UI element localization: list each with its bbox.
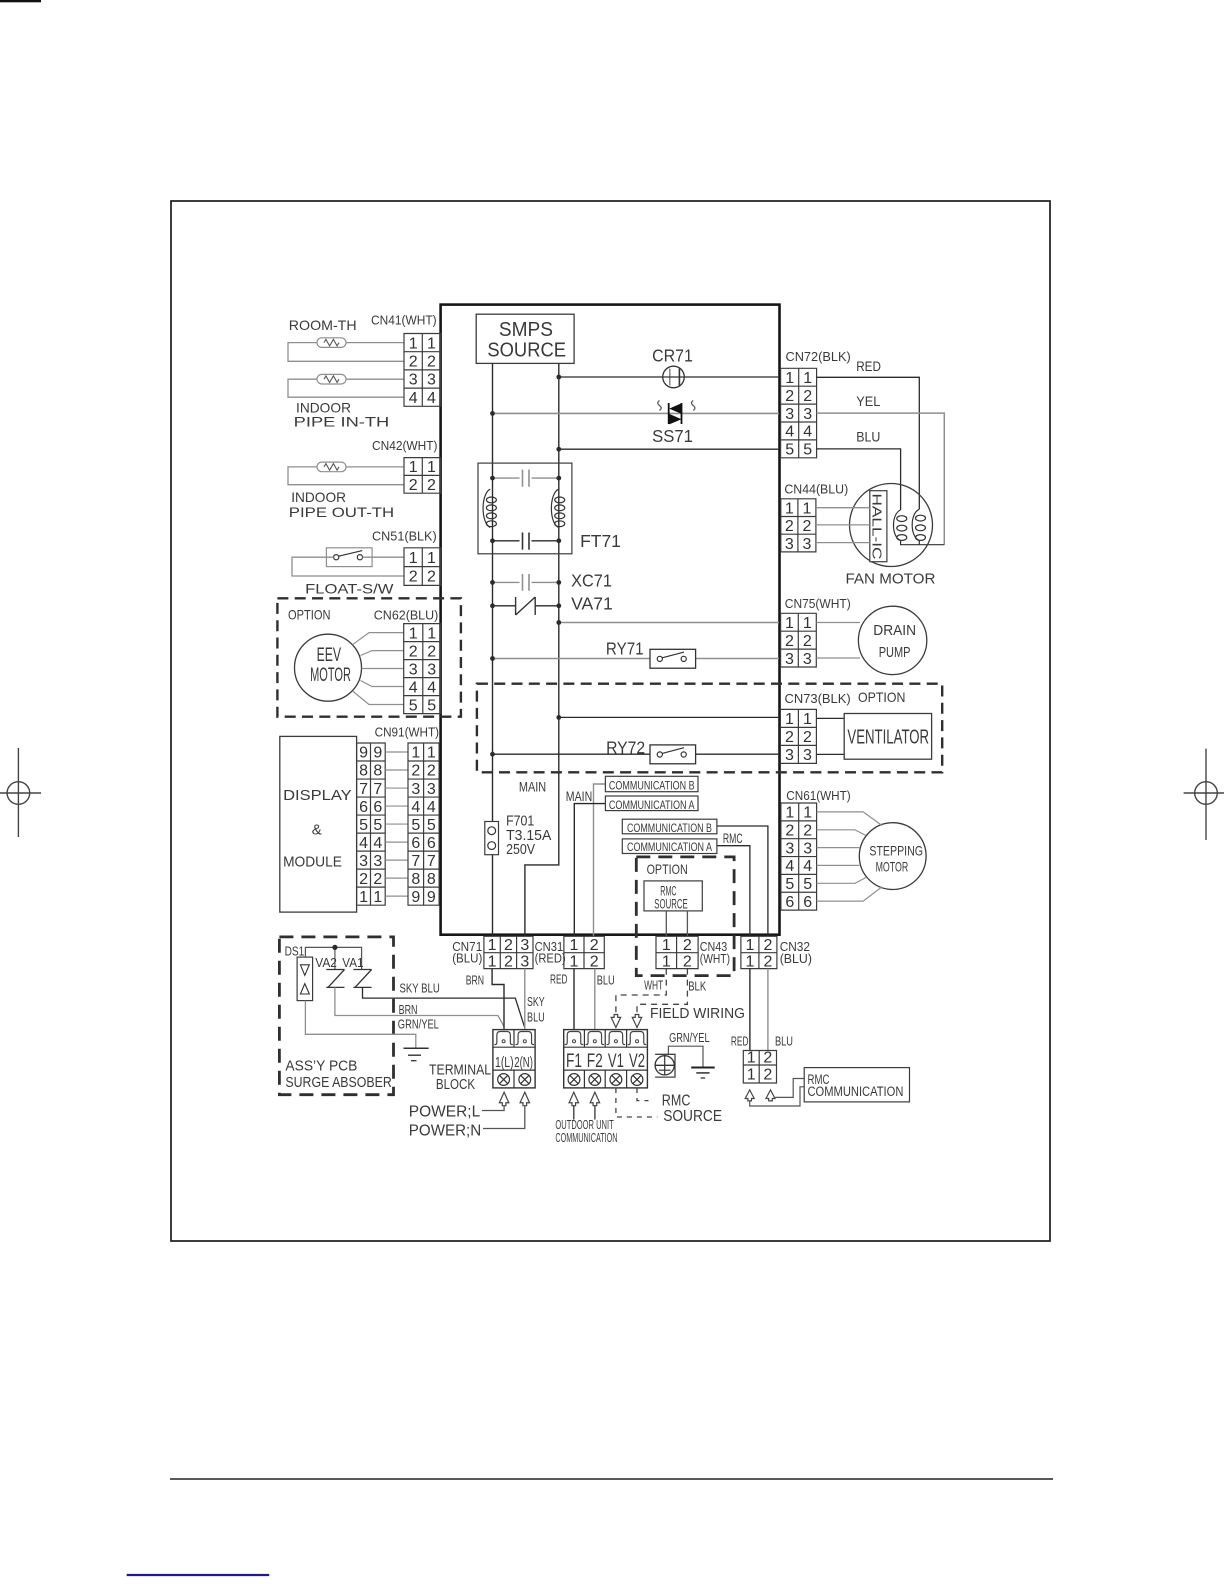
svg-text:DS1: DS1 xyxy=(285,944,305,958)
svg-text:3: 3 xyxy=(520,953,529,970)
svg-text:5: 5 xyxy=(427,697,436,714)
svg-text:PIPE OUT-TH: PIPE OUT-TH xyxy=(289,504,394,520)
svg-text:2: 2 xyxy=(683,937,692,954)
svg-text:5: 5 xyxy=(427,817,436,834)
svg-text:4: 4 xyxy=(359,835,368,852)
svg-text:3: 3 xyxy=(785,651,794,668)
svg-text:V1: V1 xyxy=(608,1051,624,1072)
hall sensor HALL-IC xyxy=(869,491,887,562)
label INDOOR PIPE IN-TH xyxy=(294,400,390,430)
svg-text:VENTILATOR: VENTILATOR xyxy=(847,727,929,749)
wire POWER L xyxy=(482,1106,504,1111)
svg-text:3: 3 xyxy=(803,840,812,857)
ground earth xyxy=(691,1068,715,1079)
arrow V2 xyxy=(632,1015,642,1028)
wire WHT dashed to V1 xyxy=(616,969,666,1015)
label CN71 xyxy=(452,939,482,966)
svg-text:9: 9 xyxy=(359,745,368,762)
svg-text:2: 2 xyxy=(409,354,418,371)
svg-text:2: 2 xyxy=(803,822,812,839)
wire RMC dashed from V2 xyxy=(637,1088,649,1101)
clamp F2 xyxy=(586,1032,605,1045)
svg-text:1: 1 xyxy=(803,615,812,632)
svg-text:2: 2 xyxy=(427,477,436,494)
svg-text:1: 1 xyxy=(745,937,754,954)
svg-text:2: 2 xyxy=(683,953,692,970)
svg-text:8: 8 xyxy=(411,871,420,888)
svg-text:CN44(BLU): CN44(BLU) xyxy=(784,481,848,496)
wire EEV pin2 xyxy=(361,651,404,656)
svg-text:RED: RED xyxy=(550,972,567,987)
ground surge xyxy=(404,1048,429,1060)
svg-text:RED: RED xyxy=(856,358,881,374)
svg-text:4: 4 xyxy=(409,679,418,696)
thermistor ROOM-TH xyxy=(317,338,346,348)
svg-text:1: 1 xyxy=(785,370,794,387)
varistor VA1 xyxy=(353,970,371,988)
capacitor XC71 xyxy=(490,570,612,590)
line filter FT71 xyxy=(478,463,621,554)
clamp terminal 1 xyxy=(494,1032,512,1045)
registration mark right xyxy=(1184,749,1224,840)
arrow power L xyxy=(499,1092,509,1106)
terminal block L-N xyxy=(493,1030,535,1088)
svg-text:VA71: VA71 xyxy=(571,593,613,613)
connector CN51 xyxy=(372,529,441,586)
terminal block F1F2V1V2 xyxy=(564,1030,648,1088)
svg-text:CN91(WHT): CN91(WHT) xyxy=(375,724,440,739)
svg-text:COMMUNICATION A: COMMUNICATION A xyxy=(627,840,712,854)
arrow rmc 2 xyxy=(766,1090,775,1101)
arrow F2 xyxy=(590,1092,600,1106)
svg-text:9: 9 xyxy=(427,889,436,906)
relay RY72 xyxy=(606,737,696,763)
svg-text:SKY BLU: SKY BLU xyxy=(400,981,440,996)
svg-text:6: 6 xyxy=(373,799,382,816)
svg-text:1: 1 xyxy=(662,953,671,970)
wire EEV pin4 xyxy=(361,681,404,687)
option dashed box surge absorber xyxy=(279,937,393,1095)
svg-text:SOURCE: SOURCE xyxy=(663,1108,722,1125)
svg-text:3: 3 xyxy=(785,536,794,553)
label CN43 xyxy=(700,939,730,966)
svg-text:4: 4 xyxy=(427,679,436,696)
label CN32 xyxy=(780,939,812,966)
connector CN71 xyxy=(484,936,533,970)
svg-text:CR71: CR71 xyxy=(652,346,693,366)
svg-text:2: 2 xyxy=(411,763,420,780)
svg-text:1: 1 xyxy=(747,1067,756,1084)
svg-text:STEPPING: STEPPING xyxy=(869,842,923,858)
svg-text:1: 1 xyxy=(373,889,382,906)
wire GRN-YEL xyxy=(305,1001,415,1049)
svg-text:5: 5 xyxy=(411,817,420,834)
svg-text:3: 3 xyxy=(803,406,812,423)
svg-text:SOURCE: SOURCE xyxy=(487,340,566,362)
svg-text:2: 2 xyxy=(785,822,794,839)
thermistor INDOOR PIPE IN-TH xyxy=(317,374,346,384)
svg-text:1: 1 xyxy=(785,711,794,728)
svg-text:BLU: BLU xyxy=(856,429,880,445)
svg-text:CN73(BLK): CN73(BLK) xyxy=(785,691,851,706)
svg-text:1: 1 xyxy=(427,550,436,567)
svg-text:RMC: RMC xyxy=(662,1093,691,1110)
svg-text:2: 2 xyxy=(803,633,812,650)
svg-text:F1: F1 xyxy=(566,1051,582,1072)
arrow V1 xyxy=(611,1015,621,1028)
svg-text:7: 7 xyxy=(359,781,368,798)
svg-text:FIELD WIRING: FIELD WIRING xyxy=(650,1006,745,1022)
svg-text:3: 3 xyxy=(785,406,794,423)
svg-text:2: 2 xyxy=(590,953,599,970)
wire ROOM-TH loop xyxy=(288,343,404,362)
connector CN91 xyxy=(375,724,440,905)
arrow rmc 1 xyxy=(745,1090,754,1101)
svg-text:CN61(WHT): CN61(WHT) xyxy=(786,788,850,803)
connector CN32 xyxy=(741,936,777,970)
svg-text:6: 6 xyxy=(359,799,368,816)
svg-text:3: 3 xyxy=(409,372,418,389)
svg-text:1: 1 xyxy=(409,335,418,352)
svg-text:4: 4 xyxy=(803,424,812,441)
svg-text:1: 1 xyxy=(359,889,368,906)
svg-text:8: 8 xyxy=(427,871,436,888)
wire CN75 pin1 to drain pump xyxy=(816,622,860,624)
label SKY/BLU cn71 xyxy=(527,994,545,1024)
wire CN31 pin2 to F2 xyxy=(594,969,596,1030)
svg-text:4: 4 xyxy=(785,858,794,875)
svg-text:2(N): 2(N) xyxy=(514,1055,533,1071)
svg-text:3: 3 xyxy=(411,781,420,798)
svg-text:3: 3 xyxy=(803,651,812,668)
svg-text:1: 1 xyxy=(411,745,420,762)
wire CN32 pin1 down xyxy=(749,969,751,1051)
svg-text:5: 5 xyxy=(359,817,368,834)
connector CN42 xyxy=(372,438,441,494)
svg-text:BRN: BRN xyxy=(399,1002,418,1017)
svg-text:3: 3 xyxy=(427,781,436,798)
svg-text:INDOOR: INDOOR xyxy=(291,489,346,505)
svg-text:VA2: VA2 xyxy=(315,956,337,970)
svg-text:COMMUNICATION B: COMMUNICATION B xyxy=(609,779,695,793)
arrow power N xyxy=(520,1092,530,1106)
option dashed box EEV xyxy=(277,598,461,716)
wire CN44 pin3 to hall xyxy=(816,542,870,544)
wire BLU CN72 pin5 to fan coil xyxy=(817,449,901,510)
svg-text:2: 2 xyxy=(785,388,794,405)
svg-text:1: 1 xyxy=(747,1050,756,1067)
svg-text:POWER;N: POWER;N xyxy=(409,1122,481,1139)
svg-text:ROOM-TH: ROOM-TH xyxy=(289,317,357,333)
wire RMC SOURCE to CN43 pin2 xyxy=(686,911,688,936)
registration mark left xyxy=(0,748,41,837)
wire CN71 pin1 to terminal L xyxy=(492,969,504,1030)
main PCB board outline xyxy=(441,305,780,935)
svg-text:3: 3 xyxy=(409,661,418,678)
svg-text:BLK: BLK xyxy=(688,979,706,994)
connector CN72 xyxy=(781,349,851,459)
svg-text:250V: 250V xyxy=(506,842,535,858)
svg-text:5: 5 xyxy=(373,817,382,834)
wire CN31 pin1 to COMMUNICATION A xyxy=(574,804,605,937)
svg-text:MOTOR: MOTOR xyxy=(310,665,351,686)
box RMC COMMUNICATION xyxy=(804,1068,909,1102)
svg-text:OPTION: OPTION xyxy=(647,861,688,877)
svg-text:COMMUNICATION: COMMUNICATION xyxy=(808,1084,904,1099)
svg-text:3: 3 xyxy=(785,747,794,764)
svg-text:2: 2 xyxy=(803,729,812,746)
screw V2 xyxy=(631,1074,643,1086)
svg-text:8: 8 xyxy=(373,763,382,780)
svg-text:3: 3 xyxy=(785,840,794,857)
motor EEV xyxy=(295,634,362,701)
svg-text:1: 1 xyxy=(785,615,794,632)
wire outdoor comm F1 xyxy=(573,1106,575,1120)
screw terminal 1 xyxy=(498,1074,510,1086)
svg-text:OPTION: OPTION xyxy=(288,607,331,623)
svg-text:4: 4 xyxy=(427,799,436,816)
svg-text:6: 6 xyxy=(785,894,794,911)
wire surge top xyxy=(305,947,361,969)
svg-text:FT71: FT71 xyxy=(580,531,621,551)
svg-text:6: 6 xyxy=(803,894,812,911)
wire L bus xyxy=(492,363,494,936)
svg-text:OUTDOOR UNIT: OUTDOOR UNIT xyxy=(555,1118,614,1132)
svg-text:2: 2 xyxy=(409,477,418,494)
connector RMC COMM header xyxy=(743,1050,776,1084)
svg-text:1: 1 xyxy=(409,550,418,567)
svg-text:2: 2 xyxy=(802,518,811,535)
connector CN44 xyxy=(781,481,848,552)
registration bar top-left xyxy=(0,0,41,2)
wire RY72 to CN73 pin3 xyxy=(493,753,780,755)
svg-text:V2: V2 xyxy=(629,1051,645,1072)
svg-text:2: 2 xyxy=(803,388,812,405)
wire POWER N xyxy=(483,1106,525,1129)
svg-text:COMMUNICATION B: COMMUNICATION B xyxy=(627,821,712,835)
wires CN91 harness xyxy=(385,752,408,896)
relay RY71 xyxy=(606,638,696,668)
svg-text:PIPE IN-TH: PIPE IN-TH xyxy=(294,414,390,430)
svg-text:GRN/YEL: GRN/YEL xyxy=(669,1030,710,1045)
svg-text:(RED): (RED) xyxy=(535,951,566,966)
box COMMUNICATION A main xyxy=(605,796,698,812)
wire CN73 pin1 to ventilator xyxy=(816,717,844,719)
svg-text:1: 1 xyxy=(409,625,418,642)
svg-text:&: & xyxy=(312,822,322,839)
svg-text:COMMUNICATION: COMMUNICATION xyxy=(555,1131,617,1145)
svg-text:1: 1 xyxy=(662,937,671,954)
capacitor FT71 bottom xyxy=(490,533,561,550)
switch FLOAT-S/W xyxy=(326,548,372,567)
svg-text:7: 7 xyxy=(427,853,436,870)
svg-text:SKY: SKY xyxy=(527,994,545,1009)
svg-text:GRN/YEL: GRN/YEL xyxy=(398,1017,439,1032)
svg-text:EEV: EEV xyxy=(317,645,342,666)
svg-text:1: 1 xyxy=(785,805,794,822)
svg-text:MOTOR: MOTOR xyxy=(876,859,909,875)
svg-text:CN42(WHT): CN42(WHT) xyxy=(372,438,438,453)
svg-text:1: 1 xyxy=(803,711,812,728)
box COMMUNICATION B main xyxy=(605,776,698,792)
screw F2 xyxy=(589,1074,601,1086)
svg-text:CN62(BLU): CN62(BLU) xyxy=(374,608,439,623)
svg-text:BLU: BLU xyxy=(527,1009,545,1024)
svg-text:4: 4 xyxy=(409,390,418,407)
svg-text:2: 2 xyxy=(785,633,794,650)
svg-text:1: 1 xyxy=(745,953,754,970)
svg-text:2: 2 xyxy=(504,953,513,970)
svg-text:5: 5 xyxy=(785,442,794,459)
svg-text:5: 5 xyxy=(803,876,812,893)
svg-text:5: 5 xyxy=(409,697,418,714)
arrow F1 xyxy=(569,1092,579,1106)
svg-text:DRAIN: DRAIN xyxy=(873,623,916,639)
wire N bus to CN75 pin1 xyxy=(559,622,779,624)
wire SS71 to CN72 pin3 xyxy=(493,412,780,414)
svg-text:MODULE: MODULE xyxy=(283,853,342,870)
earth symbol boxed xyxy=(655,1054,675,1077)
svg-text:1: 1 xyxy=(785,500,794,517)
connector CN41 xyxy=(371,313,441,407)
fuse F701 xyxy=(485,814,552,858)
clamp F1 xyxy=(565,1032,584,1045)
svg-text:3: 3 xyxy=(803,747,812,764)
screw F1 xyxy=(568,1074,580,1086)
wire EEV pin3 xyxy=(362,668,404,670)
option dashed box RMC SOURCE xyxy=(636,857,734,976)
svg-text:1: 1 xyxy=(427,745,436,762)
wire CR71 to CN72 pin1 xyxy=(559,376,779,378)
svg-text:1: 1 xyxy=(427,625,436,642)
label OUTDOOR UNIT COMMUNICATION xyxy=(555,1118,617,1145)
svg-text:2: 2 xyxy=(590,937,599,954)
wire N bus to CN73 pin1 xyxy=(559,716,779,718)
wire CN44 pin2 to hall xyxy=(816,524,870,526)
svg-text:6: 6 xyxy=(427,835,436,852)
svg-text:POWER;L: POWER;L xyxy=(409,1104,480,1121)
svg-text:7: 7 xyxy=(411,853,420,870)
svg-text:2: 2 xyxy=(763,937,772,954)
wire RED CN72 pin1 to fan coil xyxy=(817,377,920,509)
svg-text:1: 1 xyxy=(803,805,812,822)
svg-text:5: 5 xyxy=(803,442,812,459)
svg-text:FAN MOTOR: FAN MOTOR xyxy=(846,571,936,587)
svg-text:1: 1 xyxy=(488,953,497,970)
svg-text:9: 9 xyxy=(411,889,420,906)
svg-text:4: 4 xyxy=(373,835,382,852)
svg-text:(WHT): (WHT) xyxy=(700,951,730,966)
svg-text:3: 3 xyxy=(427,372,436,389)
svg-text:2: 2 xyxy=(359,871,368,888)
svg-text:SURGE ABSOBER: SURGE ABSOBER xyxy=(285,1075,391,1091)
svg-text:1: 1 xyxy=(569,937,578,954)
svg-text:3: 3 xyxy=(427,661,436,678)
svg-text:2: 2 xyxy=(427,643,436,660)
wire BLK dashed to V2 xyxy=(637,969,687,1015)
svg-text:OPTION: OPTION xyxy=(858,689,905,705)
svg-text:2: 2 xyxy=(763,953,772,970)
SMPS SOURCE block xyxy=(476,314,574,363)
svg-text:MAIN: MAIN xyxy=(566,788,592,804)
svg-text:4: 4 xyxy=(411,799,420,816)
svg-text:5: 5 xyxy=(785,876,794,893)
svg-text:3: 3 xyxy=(359,853,368,870)
footer rule xyxy=(170,1478,1053,1480)
svg-text:2: 2 xyxy=(409,569,418,586)
surge suppressor SS71 xyxy=(652,401,695,447)
wire CN31 pin2 to COMMUNICATION B xyxy=(594,784,606,936)
label INDOOR PIPE OUT-TH xyxy=(289,489,394,520)
svg-text:XC71: XC71 xyxy=(571,570,612,590)
capacitor FT71 top xyxy=(490,470,561,487)
wire COMMUNICATION A rmc to CN32 pin1 xyxy=(717,846,750,937)
svg-text:2: 2 xyxy=(763,1050,772,1067)
svg-text:2: 2 xyxy=(785,518,794,535)
inductor FT71 left coil xyxy=(483,489,490,527)
svg-text:RED: RED xyxy=(731,1034,749,1048)
motor FAN MOTOR xyxy=(850,484,933,567)
motor DRAIN PUMP xyxy=(858,606,926,674)
inductor fan coil right xyxy=(912,509,919,540)
wire rmc comm A xyxy=(775,1079,804,1098)
svg-text:1: 1 xyxy=(427,335,436,352)
svg-text:(BLU): (BLU) xyxy=(452,951,482,966)
wire rmc comm B xyxy=(750,1087,805,1106)
svg-text:2: 2 xyxy=(504,937,513,954)
svg-text:7: 7 xyxy=(373,781,382,798)
wire INDOOR PIPE IN-TH loop xyxy=(288,379,404,397)
clamp V2 xyxy=(628,1032,647,1045)
svg-text:CN75(WHT): CN75(WHT) xyxy=(785,596,851,611)
svg-text:2: 2 xyxy=(763,1067,772,1084)
block DISPLAY MODULE xyxy=(280,736,357,912)
outer frame xyxy=(171,201,1050,1241)
label CN31 xyxy=(535,939,566,966)
svg-text:BRN: BRN xyxy=(466,973,484,988)
svg-text:3: 3 xyxy=(373,853,382,870)
svg-text:PUMP: PUMP xyxy=(879,645,911,661)
varistor VA2 xyxy=(326,970,344,988)
wire CN75 pin3 to drain pump xyxy=(816,657,860,659)
label ASS'Y PCB SURGE ABSOBER xyxy=(285,1059,391,1091)
varistor VA71 xyxy=(490,593,613,615)
svg-text:HALL-IC: HALL-IC xyxy=(869,494,884,560)
svg-text:ASS’Y PCB: ASS’Y PCB xyxy=(285,1059,357,1075)
svg-text:DISPLAY: DISPLAY xyxy=(283,787,352,804)
connector CN62 xyxy=(374,608,441,715)
connector CN31 xyxy=(564,936,604,970)
svg-text:2: 2 xyxy=(427,354,436,371)
label TERMINAL BLOCK xyxy=(429,1063,491,1093)
svg-text:F2: F2 xyxy=(587,1051,603,1072)
svg-text:BLU: BLU xyxy=(775,1034,793,1048)
svg-text:VA1: VA1 xyxy=(342,956,363,970)
svg-text:4: 4 xyxy=(427,390,436,407)
thermistor INDOOR PIPE OUT-TH xyxy=(317,462,346,472)
svg-text:SOURCE: SOURCE xyxy=(654,896,687,911)
wire FLOAT-S/W loop xyxy=(292,557,404,576)
wire SOURCE dashed from V1 xyxy=(616,1088,658,1117)
wire BRN xyxy=(335,987,504,1026)
svg-text:BLU: BLU xyxy=(597,973,615,988)
wire CN44 pin1 to hall xyxy=(816,507,870,509)
svg-text:1: 1 xyxy=(409,459,418,476)
connector DISPLAY side header xyxy=(357,743,386,906)
clamp terminal 2 xyxy=(516,1032,535,1045)
svg-text:SS71: SS71 xyxy=(652,426,693,446)
svg-text:MAIN: MAIN xyxy=(519,779,546,795)
